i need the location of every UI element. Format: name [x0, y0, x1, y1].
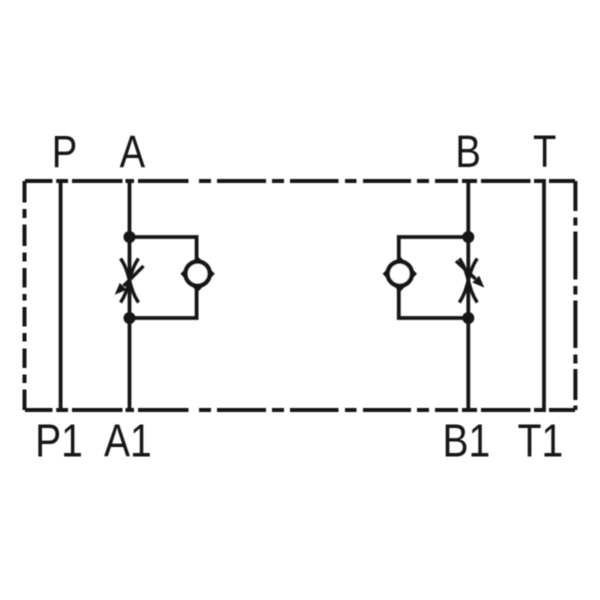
- svg-text:B1: B1: [443, 415, 491, 467]
- label B1: [443, 415, 491, 467]
- enclosure bottom border (dash-dot): [25, 408, 575, 412]
- svg-text:P1: P1: [35, 415, 83, 467]
- enclosure left border (dash-dot): [23, 181, 27, 410]
- throttle arcs (left, on A line): [121, 259, 139, 303]
- throttle arcs (right, on B line): [459, 259, 477, 303]
- svg-text:A: A: [120, 126, 145, 177]
- label A1: [104, 415, 152, 467]
- check valve ball (left): [186, 262, 210, 286]
- label T1: [518, 415, 564, 467]
- enclosure top border (dash-dot): [25, 179, 575, 183]
- svg-text:P: P: [52, 126, 77, 177]
- throttle adjustment arrow (left): [124, 266, 144, 286]
- label A: [120, 126, 145, 177]
- label T: [533, 126, 556, 177]
- svg-text:A1: A1: [104, 415, 152, 467]
- label B: [455, 126, 480, 177]
- svg-text:B: B: [455, 126, 480, 177]
- label P1: [35, 415, 83, 467]
- port line B: [466, 179, 470, 412]
- port line P: [59, 179, 63, 412]
- node: B upper junction: [462, 231, 474, 243]
- check valve ball (right): [388, 262, 412, 286]
- port line T: [542, 179, 546, 412]
- wire: right bypass loop B: [399, 237, 469, 318]
- enclosure right border (dash-dot): [573, 181, 577, 410]
- node: A lower junction: [124, 312, 136, 324]
- throttle adjustment arrow (right): [456, 261, 476, 279]
- svg-text:T1: T1: [518, 415, 564, 467]
- svg-text:T: T: [533, 126, 556, 177]
- node: A upper junction: [124, 231, 136, 243]
- check valve seat (right, diamond): [383, 256, 417, 292]
- check valve seat (left, diamond): [180, 256, 214, 292]
- label P: [52, 126, 77, 177]
- wire: left bypass loop A: [130, 237, 197, 318]
- node: B lower junction: [462, 312, 474, 324]
- port line A: [128, 179, 132, 412]
